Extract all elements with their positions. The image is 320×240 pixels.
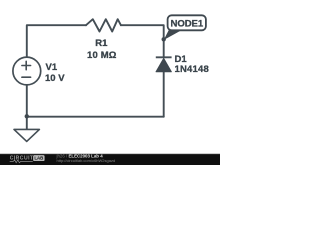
- junction dot NODE1: [162, 37, 166, 41]
- wire bottom (right corner to ground junction): [27, 116, 164, 118]
- wire junction to ground: [26, 117, 28, 130]
- wire diode to bottom corner: [163, 72, 165, 117]
- node NODE1 flag: [164, 15, 206, 40]
- svg-text:10 V: 10 V: [45, 73, 65, 84]
- voltage source V1 circle: [13, 57, 41, 85]
- V1 plus sign: [22, 61, 31, 69]
- svg-text:1N4148: 1N4148: [175, 64, 209, 75]
- footer logo underline wire with zigzag: [10, 160, 33, 163]
- wire top-right (resistor to node corner): [121, 25, 164, 57]
- footer bar: [0, 154, 220, 165]
- resistor R1: [86, 19, 121, 31]
- V1 minus sign: [22, 76, 31, 78]
- svg-text:V1: V1: [46, 62, 58, 73]
- svg-text:10 MΩ: 10 MΩ: [87, 50, 117, 61]
- ground: [14, 129, 39, 141]
- svg-text:LAB: LAB: [34, 156, 43, 161]
- svg-text:R1: R1: [95, 38, 108, 49]
- junction dot ground: [25, 114, 29, 118]
- svg-text:http://circuitlab.com/c6hW2sga: http://circuitlab.com/c6hW2sgazd: [57, 158, 116, 163]
- diode D1: [156, 57, 172, 72]
- footer logo LAB box: [33, 155, 45, 161]
- svg-text:NODE1: NODE1: [171, 19, 204, 30]
- wire top-left (V1 top to resistor): [27, 25, 86, 57]
- svg-text:CIRCUIT: CIRCUIT: [10, 155, 34, 161]
- wire V1 bottom to junction: [26, 85, 28, 117]
